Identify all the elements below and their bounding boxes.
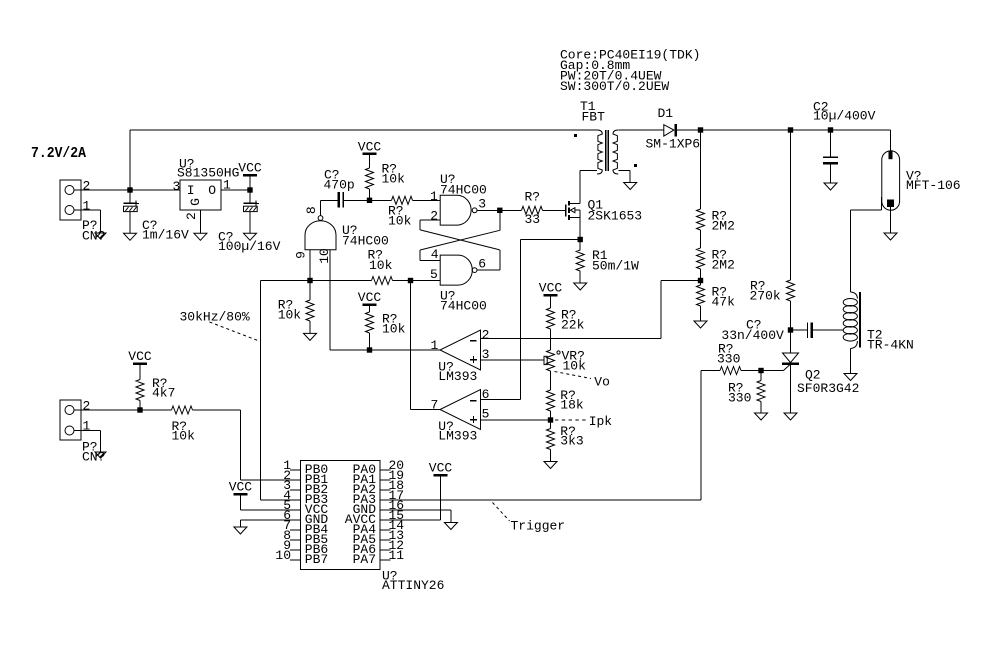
svg-text:VCC: VCC (238, 161, 262, 176)
pin 13 PA5 (380, 539, 390, 541)
resistor R? 10k pull-up comp1 (366, 312, 374, 333)
transformer T2 TR-4KN (851, 292, 858, 299)
svg-text:50m/1W: 50m/1W (592, 259, 639, 274)
svg-text:10k: 10k (369, 258, 393, 273)
svg-text:TR-4KN: TR-4KN (867, 338, 914, 353)
wire regulator output (221, 189, 250, 191)
svg-text:VCC: VCC (539, 281, 563, 296)
node VCC junction (247, 187, 252, 192)
svg-text:2: 2 (184, 212, 199, 220)
tube V? MFT-106 (882, 151, 900, 210)
svg-text:FBT: FBT (582, 110, 606, 125)
svg-text:LM393: LM393 (438, 429, 477, 444)
resistor R? 47k (697, 285, 705, 306)
svg-text:10: 10 (275, 548, 291, 563)
pin 7 PB4 (290, 529, 300, 531)
svg-text:3k3: 3k3 (560, 434, 583, 449)
label Vo (555, 372, 592, 379)
svg-text:100µ/16V: 100µ/16V (218, 239, 281, 254)
svg-text:470p: 470p (324, 178, 355, 193)
svg-text:Trigger: Trigger (511, 519, 566, 534)
svg-text:LM393: LM393 (438, 369, 477, 384)
svg-text:VCC: VCC (358, 290, 382, 305)
svg-text:2: 2 (482, 328, 490, 343)
resistor R? 33 gate drive (500, 209, 522, 211)
node comp1 output junction (367, 347, 372, 352)
VCC at AVCC pin15 (434, 474, 448, 477)
VCC pull-up comp1 (363, 303, 377, 306)
VCC symbol at regulator output (243, 174, 257, 177)
wire T1 secondary bottom to ground (618, 169, 630, 171)
svg-text:10k: 10k (382, 322, 406, 337)
connector P? CN? (input) (60, 180, 81, 220)
wire T1 primary bottom (580, 169, 597, 171)
svg-text:10k: 10k (388, 214, 412, 229)
svg-text:SF0R3G42: SF0R3G42 (797, 381, 859, 396)
resistor R? 2M2 lower (700, 230, 702, 248)
svg-text:2M2: 2M2 (712, 219, 735, 234)
ground below C 1m/16V (124, 233, 137, 240)
label Ipk (555, 419, 586, 421)
ground below regulator (194, 233, 207, 240)
ground below C2 (824, 183, 837, 190)
wire gate C output to 470p (320, 200, 322, 215)
connector P? CN? (control) (60, 400, 81, 440)
pin 8 PB5 (290, 539, 300, 541)
regulator U? S81350HG (180, 180, 221, 210)
node feedback divider junction (698, 278, 703, 283)
comparator U? LM393 upper (440, 330, 481, 370)
pin 10 PB7 (290, 559, 300, 561)
wire gate B output (477, 269, 500, 271)
wire CN2 pin1 to ground (74, 430, 101, 432)
pin 2 PB1 (290, 479, 300, 481)
svg-text:330: 330 (717, 351, 740, 366)
pin 19 PA1 (380, 479, 390, 481)
wire CN pin2 to node (74, 189, 180, 191)
node osc junction (367, 198, 372, 203)
svg-text:4k7: 4k7 (152, 386, 175, 401)
svg-text:2: 2 (83, 399, 91, 414)
svg-text:PA7: PA7 (353, 552, 376, 567)
wire oscillator feedback row y=280 (261, 280, 372, 282)
resistor R? 2M2 upper (700, 130, 702, 209)
wire comp2 output to latch (411, 409, 441, 411)
ground below R 10k (304, 333, 317, 340)
node R4k7 junction (137, 407, 142, 412)
svg-text:10µ/400V: 10µ/400V (813, 109, 876, 124)
ground below R1 (574, 283, 587, 290)
svg-text:6: 6 (482, 387, 490, 402)
transistor Q1 2SK1653 MOSFET (565, 204, 567, 216)
resistor R? 10k to NAND pin 5 (372, 277, 393, 285)
svg-text:22k: 22k (561, 318, 585, 333)
svg-text:I: I (187, 183, 195, 198)
wire comp2 plus input (481, 419, 551, 421)
nand U? 74HC00 gate C vertical (pins 8,9,10) (305, 221, 336, 250)
svg-text:74HC00: 74HC00 (440, 183, 487, 198)
svg-text:1: 1 (83, 199, 91, 214)
resistor R? 10k gate C to ground (309, 281, 311, 301)
svg-text:Ipk: Ipk (589, 414, 613, 429)
svg-text:11: 11 (389, 548, 405, 563)
pin 3 PB2 (290, 489, 300, 491)
svg-text:VCC: VCC (358, 140, 382, 155)
potentiometer VR? 10k (547, 350, 555, 371)
svg-text:2M2: 2M2 (712, 258, 735, 273)
svg-text:Vo: Vo (594, 375, 610, 390)
wire osc node to gate pin1 resistor (370, 199, 392, 201)
svg-text:2SK1653: 2SK1653 (588, 209, 643, 224)
capacitor C? 1m/16V (129, 190, 131, 203)
resistor R? 330 series trigger (701, 370, 720, 372)
svg-text:1: 1 (430, 189, 438, 204)
node thyristor anode junction (788, 327, 793, 332)
ground below tube (884, 233, 897, 240)
ground at ATTINY pin6 (240, 519, 300, 521)
ground below T2 (844, 374, 857, 381)
svg-text:G: G (188, 198, 203, 206)
svg-text:MFT-106: MFT-106 (906, 178, 961, 193)
node input junction (127, 187, 132, 192)
node HV junction at divider (698, 127, 703, 132)
wire 30kHz node down to PB3 (260, 281, 262, 501)
svg-text:8: 8 (304, 206, 319, 214)
wire current sense to comparator (521, 239, 581, 241)
wire SR cross-coupling (420, 219, 440, 221)
thyristor Q2 SF0R3G42 (783, 353, 799, 363)
pin 20 PA0 (380, 469, 390, 471)
svg-text:270k: 270k (750, 289, 781, 304)
pin 12 PA6 (380, 549, 390, 551)
svg-text:74HC00: 74HC00 (342, 234, 389, 249)
node gate A output junction (497, 208, 502, 213)
svg-text:30kHz/80%: 30kHz/80% (180, 309, 250, 324)
resistor R? 270k (790, 130, 792, 280)
wire gate C pin 10 (329, 250, 331, 350)
svg-text:2: 2 (83, 179, 91, 194)
svg-text:3: 3 (173, 179, 181, 194)
svg-text:74HC00: 74HC00 (440, 299, 487, 314)
svg-text:U?: U? (179, 157, 195, 172)
svg-text:18k: 18k (560, 398, 584, 413)
resistor R? 3k3 (547, 429, 555, 450)
VCC above R22k (544, 294, 558, 297)
ground below C 100u/16V (244, 233, 257, 240)
svg-text:4: 4 (431, 247, 439, 262)
ground T1 secondary (624, 183, 637, 190)
wire T1 secondary top to D1 (618, 129, 664, 131)
pin 1 PB0 (290, 469, 300, 471)
resistor R? 10k to PB1 (172, 406, 193, 414)
svg-text:VCC: VCC (229, 480, 253, 495)
wire comp1 output (330, 349, 440, 351)
pin 4 PB3 (290, 499, 300, 501)
svg-text:VCC: VCC (128, 349, 152, 364)
node pin5 junction (408, 278, 413, 283)
pin 11 PA7 (380, 559, 390, 561)
pin 16 GND (380, 509, 390, 511)
resistor R1 50m/1W (576, 250, 584, 271)
svg-text:1: 1 (430, 338, 438, 353)
svg-text:O: O (208, 183, 216, 198)
node Ipk junction (548, 417, 553, 422)
ground below R330 (755, 413, 768, 420)
wire trigger from PA3 (700, 371, 702, 501)
svg-text:10k: 10k (172, 429, 196, 444)
wire gate C pin 9 (309, 250, 311, 281)
wire T2 bottom to ground (850, 349, 852, 374)
node HV junction at C2 (828, 127, 833, 132)
node pin9 junction (307, 278, 312, 283)
wire regulator ground pin (199, 210, 201, 233)
svg-text:VCC: VCC (429, 461, 453, 476)
svg-text:6: 6 (478, 257, 486, 272)
svg-text:2: 2 (430, 208, 438, 223)
svg-text:SW:300T/0.2UEW: SW:300T/0.2UEW (560, 79, 669, 94)
wire top rail (130, 129, 597, 131)
comparator U? LM393 lower (440, 390, 481, 430)
wire CN2 pin2 (74, 409, 172, 411)
resistor R? 10k pull-up to osc node (369, 155, 371, 168)
phase dot secondary (634, 164, 637, 167)
pin 17 PA3 (380, 499, 390, 501)
wire trigger electrode to T2 (881, 197, 883, 210)
pin 9 PB6 (290, 549, 300, 551)
svg-text:D1: D1 (658, 106, 674, 121)
svg-text:47k: 47k (712, 295, 736, 310)
svg-text:10k: 10k (382, 172, 406, 187)
phase dot primary (574, 134, 577, 137)
svg-text:7: 7 (430, 398, 438, 413)
capacitor C? 33n/400V (791, 329, 807, 331)
ground below 47k (694, 321, 707, 328)
resistor R? 10k to NAND pin 1 (392, 196, 413, 204)
svg-text:5: 5 (482, 407, 490, 422)
mcu U? ATTINY26 (300, 460, 380, 569)
resistor R? 330 to ground (760, 371, 762, 381)
diode D1 SM-1XP6 (664, 125, 674, 136)
chassis ground at CN2 pin1 (95, 452, 106, 458)
pin 15 AVCC (380, 519, 390, 521)
pin 18 PA2 (380, 489, 390, 491)
node trigger junction (758, 368, 763, 373)
svg-text:SM-1XP6: SM-1XP6 (646, 137, 701, 152)
op-amp U? 74HC00 gate A (pins 1,2,3) (440, 195, 471, 225)
nand U? 74HC00 gate B (pins 4,5,6) (440, 255, 472, 285)
capacitor C? 100u/16V (249, 190, 251, 203)
chassis ground at CN pin1 (95, 233, 106, 239)
svg-text:5: 5 (430, 267, 438, 282)
svg-text:ATTINY26: ATTINY26 (382, 578, 444, 593)
wire Q1 source down (579, 210, 581, 250)
VCC symbol oscillator top (363, 152, 377, 155)
node Q1 source junction (578, 237, 583, 242)
svg-text:33: 33 (525, 212, 541, 227)
wire feedback to comparator minus (661, 280, 701, 282)
svg-text:10k: 10k (563, 359, 587, 374)
ground at GND pin16 (380, 509, 451, 511)
svg-text:10k: 10k (278, 308, 302, 323)
capacitor C2 10u/400V (830, 130, 832, 157)
wire CN pin1 to ground (74, 209, 101, 211)
svg-text:PB7: PB7 (305, 552, 328, 567)
transformer T1 secondary winding (613, 130, 618, 174)
ground below thyristor (784, 413, 797, 420)
resistor R? 22k (547, 308, 555, 329)
resistor R? 18k (550, 371, 552, 390)
capacitor C? 470p (321, 199, 338, 201)
svg-text:7.2V/2A: 7.2V/2A (31, 145, 86, 162)
wire rail drop to input node (129, 130, 131, 190)
svg-text:3: 3 (478, 197, 486, 212)
transformer T1 core (605, 130, 607, 171)
wire HV rail (677, 129, 891, 131)
svg-text:1: 1 (83, 419, 91, 434)
VCC at ATTINY pin5 (233, 493, 247, 496)
pin 6 GND (290, 519, 300, 521)
svg-text:1m/16V: 1m/16V (142, 228, 189, 243)
node HV junction at 270k (788, 127, 793, 132)
pin 5 VCC (290, 509, 300, 511)
svg-text:330: 330 (728, 391, 751, 406)
wire to PB1 (239, 410, 241, 480)
VCC above R4k7 (133, 362, 147, 365)
svg-text:9: 9 (294, 251, 309, 259)
transformer T2 core bar (859, 292, 861, 348)
wire comp1 plus input to VR wiper (481, 359, 545, 361)
wire T1 primary to Q1 drain (579, 170, 581, 203)
ground below R3k3 (544, 462, 557, 469)
pin 14 PA4 (380, 529, 390, 531)
svg-text:R?: R? (525, 190, 541, 205)
wire gate A output (477, 209, 500, 211)
resistor R? 4k7 (136, 380, 144, 401)
